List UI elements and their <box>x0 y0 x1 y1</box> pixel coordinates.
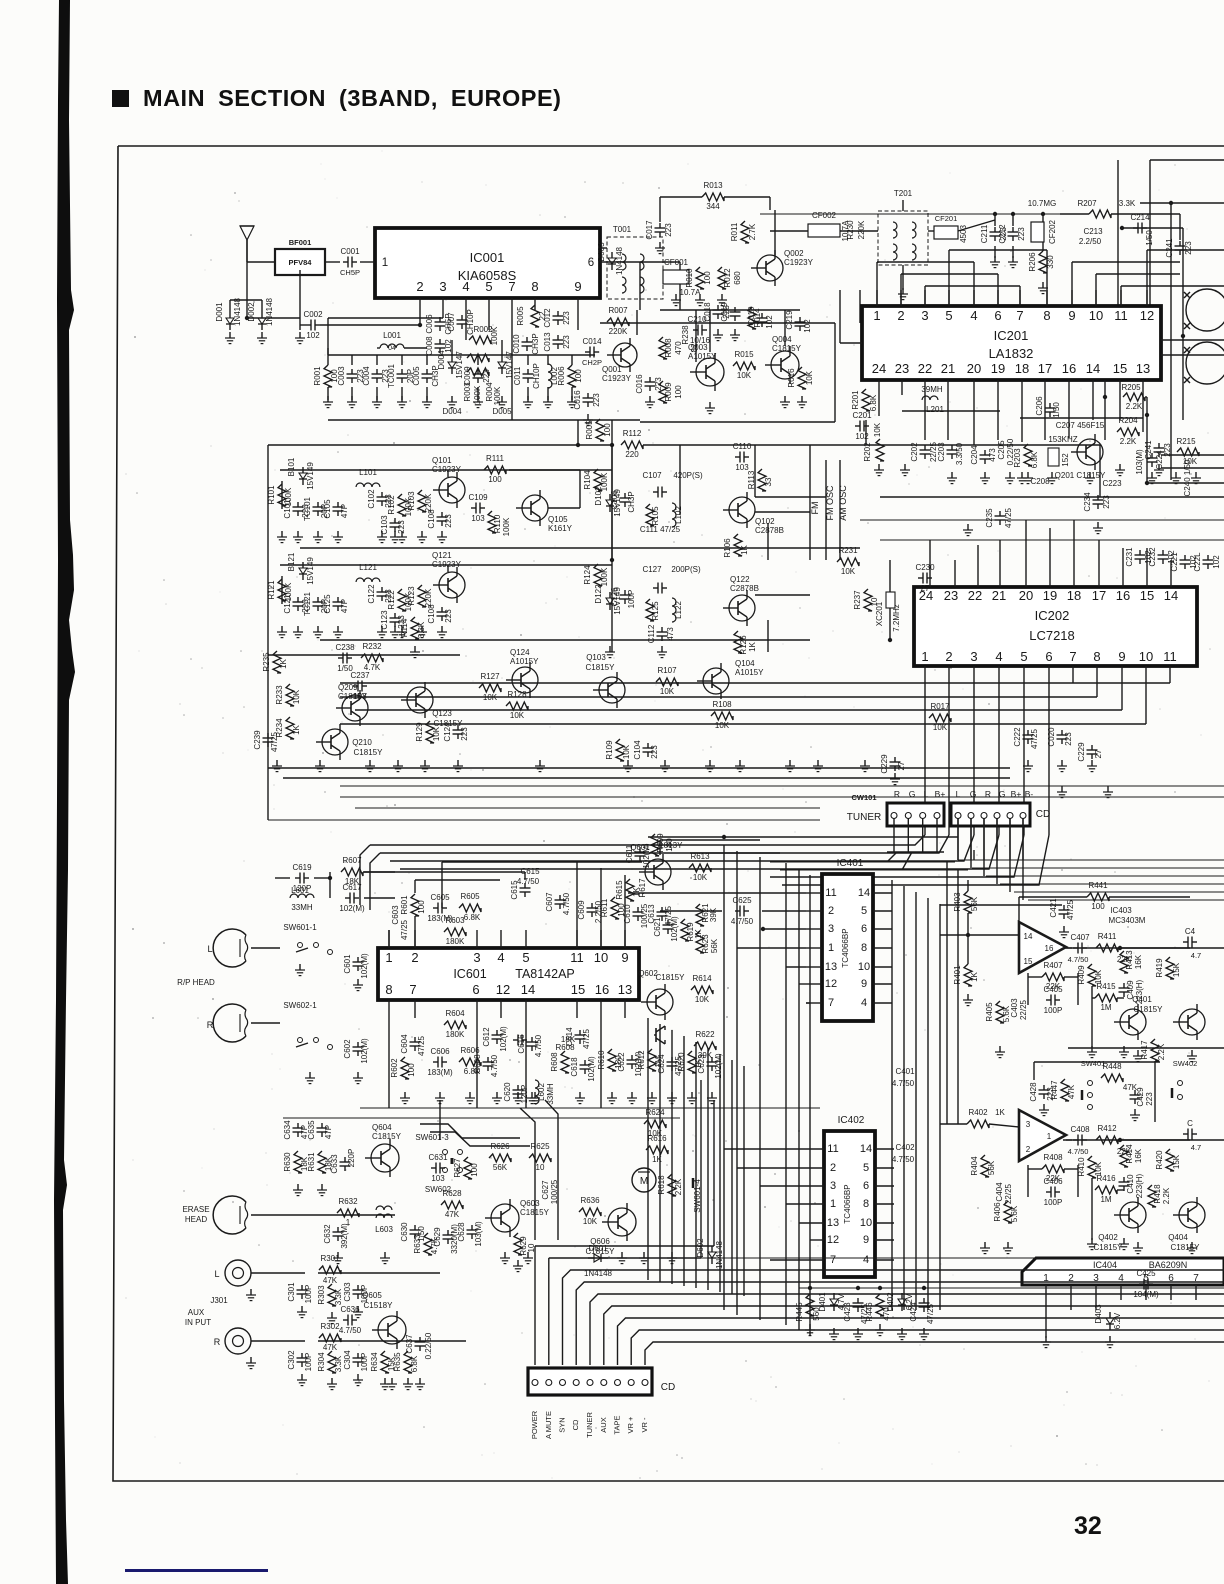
svg-text:R617: R617 <box>638 878 647 898</box>
svg-text:5.6K: 5.6K <box>1010 1205 1019 1222</box>
svg-text:R607: R607 <box>342 856 362 865</box>
svg-text:7: 7 <box>830 1254 836 1266</box>
svg-text:C201: C201 <box>852 411 872 420</box>
svg-text:102: 102 <box>765 315 774 329</box>
svg-text:103(M): 103(M) <box>474 1221 483 1247</box>
svg-text:223: 223 <box>562 311 571 325</box>
svg-text:8: 8 <box>861 942 867 954</box>
svg-text:C1815Y: C1815Y <box>656 973 686 982</box>
svg-text:R013: R013 <box>703 181 723 190</box>
svg-text:Q105: Q105 <box>548 515 568 524</box>
svg-text:R123: R123 <box>407 586 416 606</box>
svg-text:15: 15 <box>1113 361 1127 376</box>
svg-text:R205: R205 <box>1121 383 1141 392</box>
svg-text:15V149: 15V149 <box>306 557 315 585</box>
svg-text:C423: C423 <box>843 1302 852 1322</box>
svg-text:C102: C102 <box>367 489 376 509</box>
svg-text:R301: R301 <box>320 1254 340 1263</box>
svg-text:C609: C609 <box>577 900 586 920</box>
svg-text:C1815Y: C1815Y <box>1094 1243 1124 1252</box>
svg-text:16: 16 <box>1062 361 1076 376</box>
svg-text:R012: R012 <box>723 268 732 288</box>
svg-text:R603: R603 <box>445 916 465 925</box>
svg-text:420P(S): 420P(S) <box>673 471 703 480</box>
svg-text:56K: 56K <box>493 1163 508 1172</box>
svg-text:R445: R445 <box>795 1302 804 1322</box>
svg-text:4503: 4503 <box>959 225 968 243</box>
svg-text:C633: C633 <box>330 1154 339 1174</box>
svg-text:13: 13 <box>827 1217 839 1229</box>
svg-text:C604: C604 <box>400 1034 409 1054</box>
svg-text:223: 223 <box>650 745 659 759</box>
svg-text:10: 10 <box>536 1163 545 1172</box>
svg-text:A MUTE: A MUTE <box>544 1411 553 1439</box>
svg-text:R630: R630 <box>283 1152 292 1172</box>
svg-text:C005: C005 <box>412 366 421 386</box>
svg-text:344: 344 <box>706 202 720 211</box>
svg-text:Q122: Q122 <box>730 575 750 584</box>
svg-text:21: 21 <box>941 361 955 376</box>
svg-text:680: 680 <box>733 271 742 285</box>
svg-text:B121: B121 <box>287 552 296 571</box>
svg-text:C229: C229 <box>1077 742 1086 762</box>
svg-text:100K: 100K <box>502 517 511 536</box>
svg-text:R446: R446 <box>865 1302 874 1322</box>
svg-text:102(M): 102(M) <box>360 1038 369 1064</box>
svg-text:C107: C107 <box>642 471 662 480</box>
svg-text:R005: R005 <box>585 420 594 440</box>
svg-text:R127: R127 <box>480 672 500 681</box>
svg-text:B+: B+ <box>1011 789 1022 799</box>
svg-text:10K: 10K <box>510 711 525 720</box>
svg-text:AUX: AUX <box>188 1308 205 1317</box>
svg-text:LC7218: LC7218 <box>1029 628 1075 643</box>
svg-text:2: 2 <box>897 308 904 323</box>
svg-text:R633: R633 <box>413 1234 422 1254</box>
svg-text:C405: C405 <box>1043 985 1063 994</box>
svg-text:102(M): 102(M) <box>714 1053 723 1079</box>
svg-text:C239: C239 <box>253 730 262 750</box>
svg-text:G: G <box>909 789 916 799</box>
svg-text:7: 7 <box>508 279 515 294</box>
svg-text:R112: R112 <box>623 429 642 438</box>
svg-text:R009: R009 <box>664 382 673 402</box>
svg-text:R016: R016 <box>787 368 796 388</box>
svg-text:223: 223 <box>562 335 571 349</box>
svg-text:R104: R104 <box>583 470 592 490</box>
svg-text:R110: R110 <box>493 514 502 533</box>
svg-text:47K: 47K <box>323 1343 338 1352</box>
svg-text:24: 24 <box>872 361 886 376</box>
svg-text:C622: C622 <box>617 1052 626 1072</box>
svg-text:IC401: IC401 <box>837 858 864 869</box>
svg-text:R304: R304 <box>317 1352 326 1372</box>
svg-text:8: 8 <box>385 982 392 997</box>
svg-text:C428: C428 <box>1029 1082 1038 1102</box>
svg-text:5: 5 <box>863 1162 869 1174</box>
svg-text:2: 2 <box>1026 1145 1031 1154</box>
svg-text:47K: 47K <box>1067 1084 1076 1099</box>
svg-text:102: 102 <box>306 331 320 340</box>
svg-text:11: 11 <box>570 950 584 965</box>
svg-text:R113: R113 <box>747 470 756 489</box>
svg-text:R008: R008 <box>664 338 673 358</box>
svg-text:CW101: CW101 <box>851 793 876 802</box>
svg-text:G: G <box>970 789 977 799</box>
svg-text:IC402: IC402 <box>838 1115 865 1126</box>
svg-text:C213: C213 <box>1083 227 1103 236</box>
svg-text:4.7: 4.7 <box>1191 1143 1201 1152</box>
svg-text:4.7K: 4.7K <box>430 1237 439 1254</box>
svg-text:7: 7 <box>1069 649 1076 664</box>
svg-text:102(M): 102(M) <box>499 1026 508 1052</box>
svg-text:B101: B101 <box>287 457 296 476</box>
svg-text:Q210: Q210 <box>352 738 372 747</box>
svg-text:CH10P: CH10P <box>532 363 541 389</box>
svg-text:223: 223 <box>1017 227 1026 241</box>
svg-text:1K: 1K <box>748 641 757 651</box>
svg-text:56K: 56K <box>970 896 979 911</box>
svg-text:14: 14 <box>860 1143 872 1155</box>
svg-text:3: 3 <box>970 649 977 664</box>
svg-text:C616: C616 <box>517 1034 526 1054</box>
svg-text:100: 100 <box>407 1063 416 1077</box>
svg-text:R601: R601 <box>400 895 409 915</box>
svg-text:C628: C628 <box>457 1222 466 1242</box>
svg-text:9: 9 <box>574 279 581 294</box>
svg-text:R: R <box>894 789 900 799</box>
svg-text:SYN: SYN <box>558 1417 567 1432</box>
svg-text:33MH: 33MH <box>546 1083 555 1105</box>
svg-text:C1815Y: C1815Y <box>772 344 802 353</box>
svg-text:L: L <box>956 789 961 799</box>
svg-text:C111 47/25: C111 47/25 <box>640 525 681 534</box>
svg-text:G: G <box>999 789 1006 799</box>
svg-text:6: 6 <box>863 1180 869 1192</box>
svg-text:R417: R417 <box>1140 1040 1149 1060</box>
svg-text:M: M <box>640 1176 648 1187</box>
svg-text:16K: 16K <box>1134 1148 1143 1163</box>
svg-text:200P(S): 200P(S) <box>671 565 701 574</box>
svg-text:R003: R003 <box>463 382 472 402</box>
svg-text:16K: 16K <box>1134 954 1143 969</box>
svg-text:R010: R010 <box>685 268 694 288</box>
svg-text:223: 223 <box>1102 495 1111 509</box>
svg-text:R632: R632 <box>338 1197 358 1206</box>
svg-text:3.3/50: 3.3/50 <box>955 442 964 465</box>
svg-text:CH2P: CH2P <box>582 358 602 367</box>
svg-text:C219: C219 <box>785 310 794 330</box>
svg-text:1K: 1K <box>279 658 288 668</box>
svg-text:Q201 C1815Y: Q201 C1815Y <box>1055 471 1106 480</box>
svg-text:C1815Y: C1815Y <box>372 1132 402 1141</box>
svg-text:C104: C104 <box>633 740 642 760</box>
svg-text:C1518Y: C1518Y <box>364 1301 394 1310</box>
svg-text:R215: R215 <box>1176 437 1196 446</box>
svg-text:R412: R412 <box>1097 1124 1117 1133</box>
svg-text:C101: C101 <box>283 499 292 519</box>
svg-text:LA1832: LA1832 <box>989 346 1034 361</box>
svg-text:R126: R126 <box>739 635 748 655</box>
svg-text:D102: D102 <box>594 486 603 506</box>
svg-text:223: 223 <box>1145 1092 1154 1106</box>
svg-text:C006: C006 <box>425 314 434 334</box>
svg-text:4: 4 <box>970 308 977 323</box>
svg-text:6: 6 <box>861 923 867 935</box>
svg-text:C229: C229 <box>880 754 889 774</box>
svg-text:C606: C606 <box>430 1047 450 1056</box>
svg-text:L: L <box>214 1269 219 1279</box>
svg-text:C22L: C22L <box>1193 552 1202 572</box>
svg-text:1: 1 <box>385 950 392 965</box>
svg-text:20: 20 <box>1019 588 1033 603</box>
svg-text:C637: C637 <box>405 1334 414 1354</box>
svg-text:C2878B: C2878B <box>755 526 784 535</box>
svg-text:100P: 100P <box>360 1353 369 1372</box>
svg-text:Q003: Q003 <box>688 343 708 352</box>
svg-text:C234: C234 <box>1083 492 1092 512</box>
svg-text:D402: D402 <box>886 1292 895 1312</box>
svg-text:5: 5 <box>1020 649 1027 664</box>
svg-text:3: 3 <box>828 923 834 935</box>
svg-text:CD: CD <box>571 1419 580 1430</box>
svg-text:Q605: Q605 <box>362 1291 382 1300</box>
svg-text:Q101: Q101 <box>432 456 452 465</box>
svg-text:6.2V: 6.2V <box>1113 1312 1122 1329</box>
svg-text:C012: C012 <box>543 308 552 328</box>
svg-text:R201: R201 <box>851 390 860 410</box>
svg-text:C237: C237 <box>350 671 370 680</box>
svg-text:R608: R608 <box>555 1043 575 1052</box>
svg-text:C127: C127 <box>642 565 662 574</box>
svg-text:100: 100 <box>1091 902 1105 911</box>
svg-text:R614: R614 <box>692 974 712 983</box>
svg-text:220P: 220P <box>347 1149 356 1168</box>
svg-text:R206: R206 <box>1028 252 1037 272</box>
svg-text:IC001: IC001 <box>470 250 505 265</box>
svg-text:C621: C621 <box>653 917 662 937</box>
svg-text:12: 12 <box>825 978 837 990</box>
svg-text:C303: C303 <box>343 1282 352 1302</box>
svg-text:R006: R006 <box>557 366 566 386</box>
svg-text:22: 22 <box>968 588 982 603</box>
svg-text:C602: C602 <box>343 1039 352 1059</box>
svg-text:2.2K: 2.2K <box>674 1178 683 1195</box>
svg-text:C108: C108 <box>427 509 436 529</box>
svg-text:R109: R109 <box>605 740 614 760</box>
svg-text:223(H): 223(H) <box>1135 1173 1144 1198</box>
svg-text:1N4148: 1N4148 <box>615 246 624 275</box>
svg-text:C204: C204 <box>970 445 979 465</box>
svg-text:1: 1 <box>830 1198 836 1210</box>
svg-text:Q002: Q002 <box>784 249 804 258</box>
svg-text:7: 7 <box>1016 308 1023 323</box>
svg-text:10: 10 <box>594 950 608 965</box>
svg-text:3: 3 <box>439 279 446 294</box>
svg-text:102(M): 102(M) <box>339 904 365 913</box>
svg-text:102(M): 102(M) <box>587 1056 596 1082</box>
svg-text:1K: 1K <box>740 544 749 554</box>
svg-text:6: 6 <box>994 308 1001 323</box>
svg-text:33MH: 33MH <box>291 903 313 912</box>
svg-text:10: 10 <box>858 961 870 973</box>
svg-text:R413: R413 <box>1125 950 1134 970</box>
svg-text:1: 1 <box>828 942 834 954</box>
svg-text:C302: C302 <box>287 1350 296 1370</box>
svg-text:2: 2 <box>411 950 418 965</box>
svg-text:3: 3 <box>830 1180 836 1192</box>
svg-text:C1923Y: C1923Y <box>602 374 632 383</box>
svg-text:23: 23 <box>944 588 958 603</box>
svg-text:C627: C627 <box>541 1180 550 1200</box>
svg-text:PFV84: PFV84 <box>289 258 313 267</box>
svg-text:47/25: 47/25 <box>417 1035 426 1056</box>
svg-text:C407: C407 <box>1070 933 1090 942</box>
svg-text:C1815Y: C1815Y <box>586 663 616 672</box>
svg-text:8: 8 <box>1043 308 1050 323</box>
svg-text:R416: R416 <box>1096 1174 1116 1183</box>
svg-text:C004: C004 <box>362 366 371 386</box>
svg-text:10K: 10K <box>873 422 882 437</box>
svg-text:27: 27 <box>921 584 930 593</box>
svg-text:2.2K: 2.2K <box>1120 437 1137 446</box>
svg-text:R447: R447 <box>1050 1080 1059 1100</box>
svg-text:TC4066BP: TC4066BP <box>841 928 850 967</box>
svg-text:R238: R238 <box>681 325 690 345</box>
svg-text:3.3K: 3.3K <box>417 621 426 638</box>
svg-text:C304: C304 <box>343 1350 352 1370</box>
svg-text:100: 100 <box>470 1163 479 1177</box>
svg-text:6: 6 <box>588 257 594 269</box>
svg-text:3.3K: 3.3K <box>334 1355 343 1372</box>
svg-text:10K: 10K <box>715 721 730 730</box>
svg-text:1: 1 <box>1047 1132 1052 1141</box>
svg-text:100: 100 <box>703 271 712 285</box>
svg-text:C207 456F15: C207 456F15 <box>1056 421 1105 430</box>
svg-text:2.7K: 2.7K <box>748 223 757 240</box>
svg-text:9: 9 <box>863 1234 869 1246</box>
svg-text:C: C <box>1187 1119 1193 1128</box>
svg-text:T201: T201 <box>894 189 913 198</box>
svg-text:100P: 100P <box>304 1353 313 1372</box>
svg-text:17: 17 <box>1092 588 1106 603</box>
svg-text:C014: C014 <box>582 337 602 346</box>
svg-text:C212: C212 <box>998 224 1007 244</box>
svg-text:TUNER: TUNER <box>585 1412 594 1438</box>
svg-text:Q102: Q102 <box>755 517 775 526</box>
svg-text:TC101: TC101 <box>303 496 312 521</box>
svg-text:15: 15 <box>1140 588 1154 603</box>
svg-text:04: 04 <box>388 345 396 352</box>
svg-text:39K: 39K <box>709 907 718 922</box>
svg-text:A1015Y: A1015Y <box>510 657 539 666</box>
svg-text:XC201: XC201 <box>875 601 884 626</box>
svg-text:C301: C301 <box>287 1282 296 1302</box>
svg-text:C013: C013 <box>543 332 552 352</box>
svg-text:9: 9 <box>621 950 628 965</box>
svg-text:223: 223 <box>444 514 453 528</box>
svg-text:56K: 56K <box>987 1160 996 1175</box>
svg-text:9: 9 <box>861 978 867 990</box>
svg-text:L: L <box>207 944 212 954</box>
svg-text:SW601-1: SW601-1 <box>283 923 317 932</box>
svg-text:R625: R625 <box>530 1142 550 1151</box>
svg-text:C235: C235 <box>985 508 994 528</box>
svg-text:R608: R608 <box>550 1052 559 1072</box>
svg-text:1K: 1K <box>652 1155 662 1164</box>
svg-text:14: 14 <box>1086 361 1100 376</box>
svg-text:183(M): 183(M) <box>427 1068 453 1077</box>
svg-text:SW402: SW402 <box>1173 1059 1198 1068</box>
svg-text:R114: R114 <box>400 618 409 637</box>
svg-text:103: 103 <box>735 463 749 472</box>
svg-text:2: 2 <box>416 279 423 294</box>
svg-text:C019: C019 <box>747 306 756 326</box>
svg-text:100: 100 <box>674 385 683 399</box>
svg-text:4.7/50: 4.7/50 <box>339 1326 362 1335</box>
svg-text:102: 102 <box>855 432 869 441</box>
svg-text:102(M): 102(M) <box>360 953 369 979</box>
svg-text:15K: 15K <box>1172 962 1181 977</box>
svg-text:100K: 100K <box>473 385 482 404</box>
svg-text:R303: R303 <box>317 1285 326 1305</box>
svg-text:4.7/50: 4.7/50 <box>731 917 754 926</box>
svg-text:D401: D401 <box>818 1292 827 1312</box>
svg-text:IC202: IC202 <box>1035 608 1070 623</box>
svg-text:C635: C635 <box>307 1120 316 1140</box>
svg-text:21: 21 <box>992 588 1006 603</box>
svg-text:15: 15 <box>1024 957 1033 966</box>
svg-text:TC001: TC001 <box>387 363 396 388</box>
svg-text:C619: C619 <box>292 863 312 872</box>
svg-text:3: 3 <box>1026 1120 1031 1129</box>
svg-text:6: 6 <box>472 982 479 997</box>
svg-text:10K: 10K <box>583 1217 598 1226</box>
svg-text:16: 16 <box>1045 944 1054 953</box>
svg-text:1N4148: 1N4148 <box>265 297 274 326</box>
svg-text:102: 102 <box>1212 555 1221 569</box>
svg-text:BF001: BF001 <box>289 238 312 247</box>
svg-text:C240 1/50: C240 1/50 <box>1183 459 1192 496</box>
svg-text:C401: C401 <box>895 1067 915 1076</box>
svg-text:CH5P: CH5P <box>340 268 360 277</box>
svg-text:R129: R129 <box>415 722 424 742</box>
svg-text:22/25: 22/25 <box>1004 1183 1013 1204</box>
svg-text:R203: R203 <box>1013 448 1022 468</box>
svg-text:4: 4 <box>995 649 1002 664</box>
svg-text:7.2MHz: 7.2MHz <box>892 604 901 632</box>
svg-text:8: 8 <box>1093 649 1100 664</box>
svg-text:Q121: Q121 <box>432 551 452 560</box>
svg-text:223: 223 <box>1184 241 1193 255</box>
svg-text:R125: R125 <box>651 601 660 621</box>
svg-text:100: 100 <box>417 900 426 914</box>
svg-text:K161Y: K161Y <box>548 524 573 533</box>
svg-text:R232: R232 <box>362 642 382 651</box>
svg-text:R628: R628 <box>442 1189 462 1198</box>
svg-text:R404: R404 <box>970 1156 979 1176</box>
svg-text:4.7/50: 4.7/50 <box>892 1155 915 1164</box>
svg-text:C016: C016 <box>573 390 582 410</box>
svg-text:R111: R111 <box>486 454 504 463</box>
svg-text:473: 473 <box>666 627 675 641</box>
svg-text:4: 4 <box>497 950 504 965</box>
svg-text:R418: R418 <box>1153 1184 1162 1204</box>
svg-text:22: 22 <box>918 361 932 376</box>
svg-text:47/25: 47/25 <box>270 731 279 752</box>
svg-text:47K: 47K <box>445 1210 460 1219</box>
svg-text:18: 18 <box>1067 588 1081 603</box>
